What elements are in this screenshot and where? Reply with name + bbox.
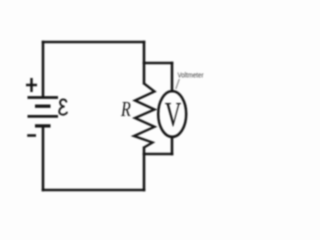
resistor R zigzag [134,84,155,148]
battery plate, bottom short (-) [35,124,51,127]
svg-text:V: V [165,95,182,134]
wire: voltmeter branch, vertical from meter to junction [171,136,174,156]
wire: voltmeter branch, vertical down to meter [171,62,174,93]
wire: voltmeter branch, bottom horizontal to node [143,153,174,156]
battery plus sign [26,78,37,92]
wire: left vertical, battery top lead [42,41,45,98]
battery minus sign [27,134,36,137]
wire: voltmeter branch, top horizontal tee [143,62,174,65]
battery plate, upper short (-) [35,105,51,108]
wire: right vertical, top-right corner down to resistor [143,41,146,85]
wire: bottom horizontal of main loop [42,189,146,192]
battery plate, top long (+) [28,96,59,99]
svg-text:Voltmeter: Voltmeter [178,73,205,80]
wire: left vertical, battery bottom lead [42,126,45,191]
svg-text:R: R [120,97,131,121]
wire: top horizontal of main loop [42,41,146,44]
label: EMF script-E of battery [59,99,67,114]
voltmeter U1 circle [158,91,186,137]
battery plate, lower long (+) [28,115,59,118]
wire: right vertical, below resistor to bottom wire [143,147,146,192]
leader line from Voltmeter text to meter [176,79,180,89]
